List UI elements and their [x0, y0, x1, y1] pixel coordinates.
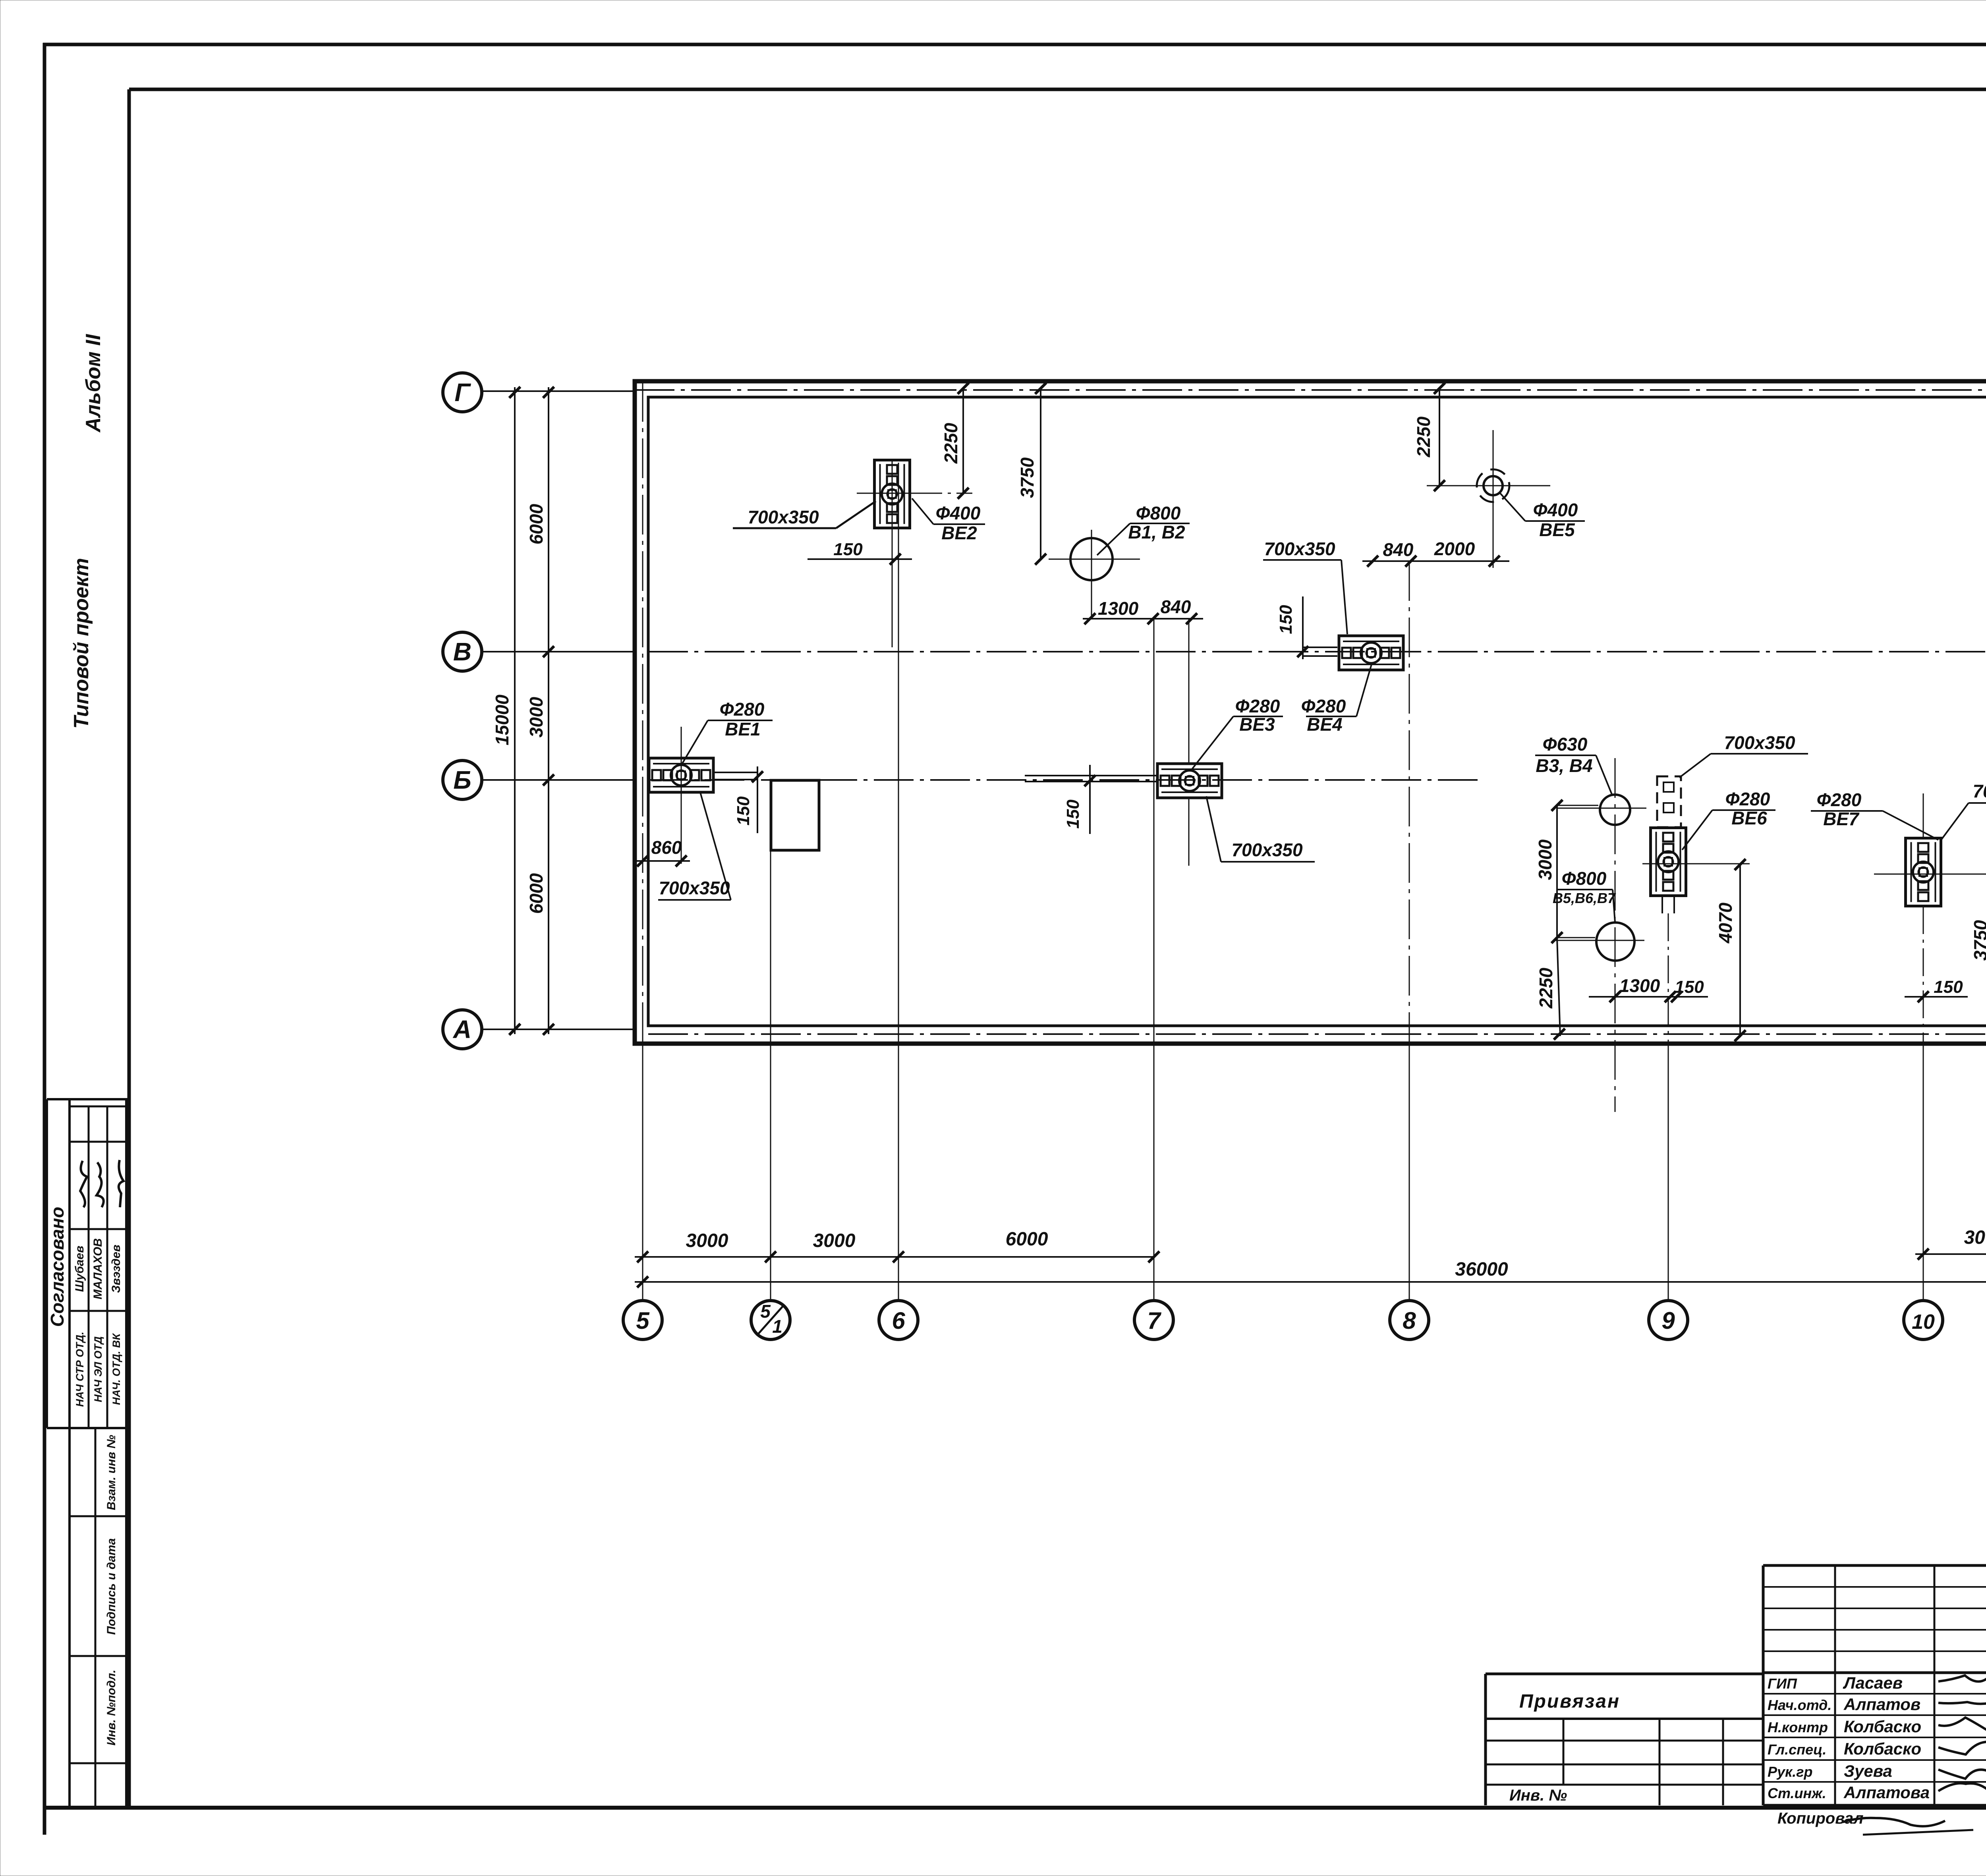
svg-text:150: 150 — [1276, 605, 1296, 634]
svg-text:Звэздев: Звэздев — [110, 1245, 123, 1293]
unit ВЕ6 dashed duct — [1657, 776, 1681, 827]
svg-text:Алпатов: Алпатов — [1843, 1695, 1920, 1714]
svg-text:ВЕ2: ВЕ2 — [941, 523, 977, 543]
sheet outer border top line — [43, 43, 1986, 46]
inner frame bottom line — [44, 1806, 1986, 1810]
vent shaft В1,В2 circle — [1070, 538, 1113, 580]
axis 9 line — [1668, 913, 1669, 1043]
stamp table Согласовано grid — [47, 1098, 129, 1100]
svg-text:2000: 2000 — [1434, 538, 1475, 559]
svg-text:7: 7 — [1147, 1307, 1161, 1334]
svg-text:Типовой проект: Типовой проект — [70, 558, 93, 729]
axis bubble 9 — [1649, 1301, 1688, 1339]
svg-text:15000: 15000 — [492, 695, 512, 745]
svg-text:Алпатова: Алпатова — [1843, 1783, 1930, 1802]
left dim lines — [514, 387, 516, 1034]
svg-text:3750: 3750 — [1970, 920, 1986, 961]
svg-text:Ф400: Ф400 — [1533, 500, 1578, 520]
axis Б line — [482, 779, 635, 781]
sign row Нач.отд. signature — [1938, 1699, 1986, 1705]
svg-text:Ф630: Ф630 — [1543, 734, 1588, 755]
dim 4070 line — [1739, 865, 1741, 1037]
svg-text:Подпись и дата: Подпись и дата — [105, 1538, 118, 1635]
svg-text:Рук.гр: Рук.гр — [1768, 1764, 1812, 1780]
axis bubble В — [443, 632, 482, 671]
svg-text:ВЕ7: ВЕ7 — [1823, 809, 1860, 829]
unit ВЕ3 duct band — [1025, 775, 1157, 776]
svg-text:Гл.спец.: Гл.спец. — [1768, 1741, 1826, 1758]
vent unit ВЕ4 — [1339, 636, 1403, 670]
svg-text:2250: 2250 — [941, 423, 961, 464]
circles centerline vertical — [1615, 758, 1616, 1112]
svg-text:6000: 6000 — [526, 504, 547, 544]
svg-text:А: А — [452, 1015, 471, 1044]
svg-text:В1, В2: В1, В2 — [1128, 522, 1185, 542]
svg-text:840: 840 — [1161, 596, 1191, 617]
svg-text:Ф280: Ф280 — [1725, 789, 1770, 809]
svg-text:1300: 1300 — [1619, 975, 1660, 996]
axis 7 line — [1153, 619, 1155, 1299]
svg-text:150: 150 — [1934, 977, 1963, 997]
svg-text:6: 6 — [892, 1307, 905, 1334]
svg-text:9: 9 — [1661, 1307, 1675, 1334]
sign row Рук.гр signature — [1938, 1770, 1986, 1779]
axis А line — [482, 1029, 635, 1030]
svg-text:Инв. №подл.: Инв. №подл. — [105, 1669, 118, 1745]
axis Г line — [482, 390, 635, 392]
svg-text:860: 860 — [651, 837, 682, 858]
dim line 1300-840 — [1083, 618, 1203, 620]
svg-text:700x350: 700x350 — [1264, 538, 1335, 559]
svg-text:Ф800: Ф800 — [1562, 868, 1607, 889]
sign row Ст.инж. signature — [1938, 1783, 1986, 1797]
axis bubble Б — [443, 760, 482, 799]
svg-text:НАЧ. ОТД. ВК: НАЧ. ОТД. ВК — [110, 1333, 122, 1405]
vent unit ВЕ3 — [1157, 764, 1222, 798]
svg-text:Взам. инв №: Взам. инв № — [105, 1435, 118, 1510]
svg-text:Ф280: Ф280 — [1235, 696, 1280, 716]
svg-text:ВЕ3: ВЕ3 — [1239, 714, 1275, 735]
svg-text:700x350: 700x350 — [748, 507, 819, 527]
vent unit ВЕ1 — [649, 758, 713, 792]
dim 2250 line (В5-А) — [1557, 938, 1560, 1036]
stamp sig 3 — [119, 1160, 124, 1207]
svg-text:1300: 1300 — [1098, 598, 1139, 619]
svg-text:3000: 3000 — [526, 697, 547, 737]
svg-text:Н.контр: Н.контр — [1768, 1719, 1828, 1735]
unit ВЕ6 center horizontal — [1642, 863, 1750, 865]
svg-text:3000: 3000 — [813, 1230, 856, 1251]
axis 5 line below roof — [642, 1043, 643, 1299]
unit ВЕ4 duct band — [1303, 647, 1337, 648]
svg-text:Нач.отд.: Нач.отд. — [1768, 1697, 1831, 1713]
axis bubble 6 — [879, 1301, 918, 1339]
svg-text:Ласаев: Ласаев — [1843, 1673, 1903, 1692]
svg-text:3750: 3750 — [1017, 457, 1037, 498]
dim 3750 line (Г-В1В2) — [1040, 388, 1041, 559]
axis 6 line — [898, 463, 899, 1299]
svg-text:700x350: 700x350 — [1724, 732, 1795, 753]
В1В2 crosshair — [1049, 559, 1140, 560]
unit ВЕ2 center horizontal — [857, 493, 926, 494]
svg-text:МАЛАХОВ: МАЛАХОВ — [91, 1238, 104, 1299]
vent shaft В5,В6,В7 circle — [1596, 923, 1634, 961]
svg-text:ГИП: ГИП — [1768, 1675, 1797, 1692]
svg-text:150: 150 — [734, 796, 753, 826]
В5В6В7 crosshair — [1555, 940, 1644, 941]
svg-text:3000: 3000 — [686, 1230, 728, 1251]
bottom dim line segments — [635, 1256, 1154, 1258]
svg-text:5: 5 — [760, 1301, 771, 1322]
svg-text:6000: 6000 — [526, 873, 547, 914]
svg-text:2250: 2250 — [1536, 967, 1556, 1009]
svg-text:6000: 6000 — [1006, 1229, 1048, 1250]
svg-text:В3, В4: В3, В4 — [1536, 755, 1592, 776]
unit ВЕ3 centerline — [1188, 619, 1190, 763]
sign row ГИП signature — [1938, 1674, 1986, 1691]
dim line 1300-150 (ВЕ6) — [1589, 996, 1708, 998]
svg-text:Инв. №: Инв. № — [1509, 1787, 1567, 1804]
svg-text:Шубаев: Шубаев — [73, 1246, 86, 1292]
stamp lower cells grid — [68, 1428, 71, 1808]
svg-text:В5,В6,В7: В5,В6,В7 — [1553, 890, 1616, 906]
dim 3000 line (В3-В5) — [1556, 805, 1558, 938]
axis bubble 8 — [1390, 1301, 1429, 1339]
svg-text:150: 150 — [833, 540, 863, 559]
svg-text:700x350: 700x350 — [1231, 840, 1302, 860]
svg-text:2250: 2250 — [1413, 416, 1434, 457]
svg-text:150: 150 — [1675, 977, 1704, 997]
svg-text:Альбом II: Альбом II — [82, 334, 105, 433]
dim 2250 line (Г-ВЕ2) — [962, 388, 964, 493]
svg-text:ВЕ4: ВЕ4 — [1307, 714, 1342, 735]
svg-text:Ст.инж.: Ст.инж. — [1768, 1785, 1826, 1801]
roof outer outline — [635, 381, 1986, 1044]
inner frame left line — [128, 89, 131, 1808]
vent unit ВЕ2 — [875, 460, 910, 528]
roof inner outline — [648, 397, 1986, 1026]
svg-text:Ф280: Ф280 — [720, 699, 765, 720]
unit ВЕ2 centerline vertical — [892, 461, 893, 647]
unit ВЕ7 center horizontal — [1874, 874, 1986, 875]
axis bubble А — [443, 1010, 482, 1049]
axis bubble 10 — [1904, 1301, 1943, 1339]
svg-text:ВЕ6: ВЕ6 — [1731, 808, 1767, 828]
vent unit ВЕ6 — [1651, 828, 1686, 896]
svg-text:ВЕ1: ВЕ1 — [725, 719, 760, 739]
axis 8 line — [1409, 561, 1410, 1043]
sign row Гл.спец. signature — [1938, 1741, 1986, 1754]
svg-text:НАЧ СТР ОТД.: НАЧ СТР ОТД. — [74, 1332, 86, 1407]
В1В2 circle lower stub — [1091, 592, 1092, 619]
svg-text:10: 10 — [1912, 1310, 1935, 1334]
svg-text:700x350: 700x350 — [659, 878, 730, 898]
svg-text:8: 8 — [1403, 1307, 1416, 1334]
inner frame top line — [129, 88, 1986, 91]
svg-text:ВЕ5: ВЕ5 — [1539, 519, 1575, 540]
axis bubble 7 — [1134, 1301, 1173, 1339]
svg-text:В: В — [453, 637, 471, 666]
unit ВЕ1 centerline vertical — [681, 727, 682, 864]
axis В line — [482, 651, 635, 652]
ВЕ5 crosshair — [1427, 485, 1550, 486]
svg-text:Привязан: Привязан — [1519, 1691, 1620, 1712]
svg-text:Б: Б — [453, 766, 471, 794]
svg-text:150: 150 — [1063, 799, 1083, 829]
axis 5/1 line — [770, 850, 771, 1299]
roof opening rectangle — [771, 780, 819, 850]
title block sign table grid — [1762, 1565, 1765, 1805]
svg-text:Копировал: Копировал — [1777, 1810, 1864, 1827]
svg-text:5: 5 — [636, 1307, 650, 1334]
svg-text:Ф800: Ф800 — [1136, 503, 1181, 523]
svg-text:700x350: 700x350 — [1972, 781, 1986, 801]
В3В4 crosshair — [1557, 808, 1646, 809]
svg-text:3000: 3000 — [1535, 839, 1555, 880]
svg-text:Зуева: Зуева — [1844, 1762, 1892, 1780]
axis bubble Г — [443, 373, 482, 412]
vent shaft В3,В4 circle — [1600, 795, 1630, 825]
svg-text:1: 1 — [772, 1316, 782, 1337]
sheet outer border left line — [43, 43, 46, 1835]
sig Копировал — [1843, 1818, 1945, 1826]
vent unit ВЕ7 — [1906, 838, 1941, 906]
stamp sig 2 — [97, 1162, 104, 1207]
unit ВЕ6 bottom stub — [1661, 896, 1663, 913]
sign row Н.контр signature — [1938, 1718, 1986, 1731]
svg-text:4070: 4070 — [1715, 902, 1736, 944]
svg-text:Г: Г — [454, 378, 471, 407]
svg-text:Колбаско: Колбаско — [1844, 1717, 1921, 1736]
axis bubble 5 — [623, 1301, 662, 1339]
svg-text:840: 840 — [1383, 539, 1414, 560]
svg-text:Согласовано: Согласовано — [47, 1207, 68, 1327]
svg-text:36000: 36000 — [1455, 1259, 1508, 1280]
svg-text:3000: 3000 — [1964, 1227, 1986, 1248]
unit ВЕ1 duct band — [713, 772, 757, 773]
svg-text:НАЧ ЭЛ ОТД: НАЧ ЭЛ ОТД — [92, 1336, 104, 1402]
svg-text:Ф280: Ф280 — [1301, 696, 1346, 716]
svg-text:Ф400: Ф400 — [936, 503, 981, 523]
title block Привязан table — [1484, 1674, 1487, 1805]
bottom dim line 36000 — [635, 1281, 1986, 1283]
svg-text:Ф280: Ф280 — [1817, 789, 1862, 810]
svg-text:Колбаско: Колбаско — [1844, 1739, 1921, 1758]
axis 10 line — [1923, 906, 1924, 1043]
dim 2250 (Г-ВЕ5) — [1439, 388, 1440, 486]
deflector ВЕ5 circle — [1484, 476, 1503, 495]
dim line 840-2000 — [1362, 560, 1509, 562]
stamp sig 1 — [80, 1161, 87, 1207]
axis 5 dash line in roof — [642, 382, 643, 1043]
axis bubble 5/1 — [751, 1301, 790, 1339]
